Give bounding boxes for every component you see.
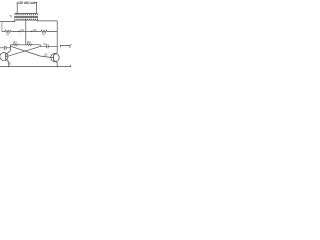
wire secondary lead left: [16, 3, 18, 14]
svg-text:R1: R1: [13, 41, 17, 45]
resistor R feedback left 47: [2, 30, 19, 32]
node emitter rail right: [57, 66, 58, 67]
svg-text:R2: R2: [27, 41, 31, 45]
svg-text:120 VAC out: 120 VAC out: [18, 1, 36, 5]
wire cross-coupling D2 to Q1 base: [6, 46, 40, 56]
wire right corner stub down: [39, 45, 41, 47]
node output terminal left: [17, 2, 18, 3]
wire middle of feedback rail: [19, 30, 32, 32]
node base junction left: [19, 31, 21, 33]
capacitor C2 right: [40, 44, 57, 48]
transistor Q1: [0, 51, 10, 67]
wire center tap: [25, 19, 27, 45]
svg-text:Q2: Q2: [44, 53, 48, 57]
node output terminal right: [36, 2, 37, 3]
resistor R1 bias left on bias rail: [10, 44, 40, 45]
wire secondary lead right: [35, 3, 36, 14]
transformer T1 core: [14, 15, 38, 17]
wire primary right end to collector drop: [38, 19, 58, 21]
wire Q2 collector drop: [56, 21, 58, 53]
svg-text:47: 47: [6, 32, 10, 36]
wire left vertical tie: [1, 22, 3, 32]
wire switch to battery positive: [61, 45, 70, 48]
wire primary left end to left edge: [0, 19, 15, 22]
transformer T1 secondary winding: [15, 13, 38, 15]
svg-text:C1: C1: [43, 42, 47, 46]
transistor Q2: [50, 53, 59, 67]
node emitter rail left: [8, 66, 9, 67]
svg-text:47: 47: [42, 32, 46, 36]
switch S1 blade: [60, 45, 62, 47]
svg-text:Q1: Q1: [8, 62, 12, 66]
resistor R feedback right 47: [32, 30, 57, 32]
wire ground rail: [0, 65, 71, 67]
wire cross-coupling D1 to Q2 base: [10, 46, 50, 57]
capacitor C1 left: [0, 46, 10, 50]
wire left corner stub down: [9, 45, 11, 51]
node switch contact: [60, 45, 61, 46]
label battery plus: [70, 44, 71, 45]
node base junction right: [31, 31, 33, 33]
transformer T1 primary winding: [15, 19, 38, 21]
svg-text:Tr: Tr: [9, 14, 13, 18]
